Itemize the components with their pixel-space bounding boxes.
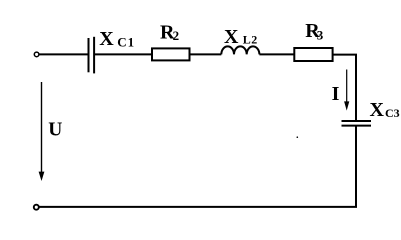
svg-text:X: X: [99, 28, 114, 50]
svg-text:L2: L2: [243, 32, 258, 46]
svg-text:I: I: [332, 83, 340, 105]
svg-text:2: 2: [173, 28, 180, 43]
svg-text:U: U: [48, 119, 62, 140]
svg-text:3: 3: [317, 27, 324, 42]
svg-text:C1: C1: [117, 34, 135, 49]
svg-text:C3: C3: [385, 106, 400, 120]
svg-text:X: X: [224, 26, 239, 48]
svg-text:X: X: [370, 99, 385, 121]
